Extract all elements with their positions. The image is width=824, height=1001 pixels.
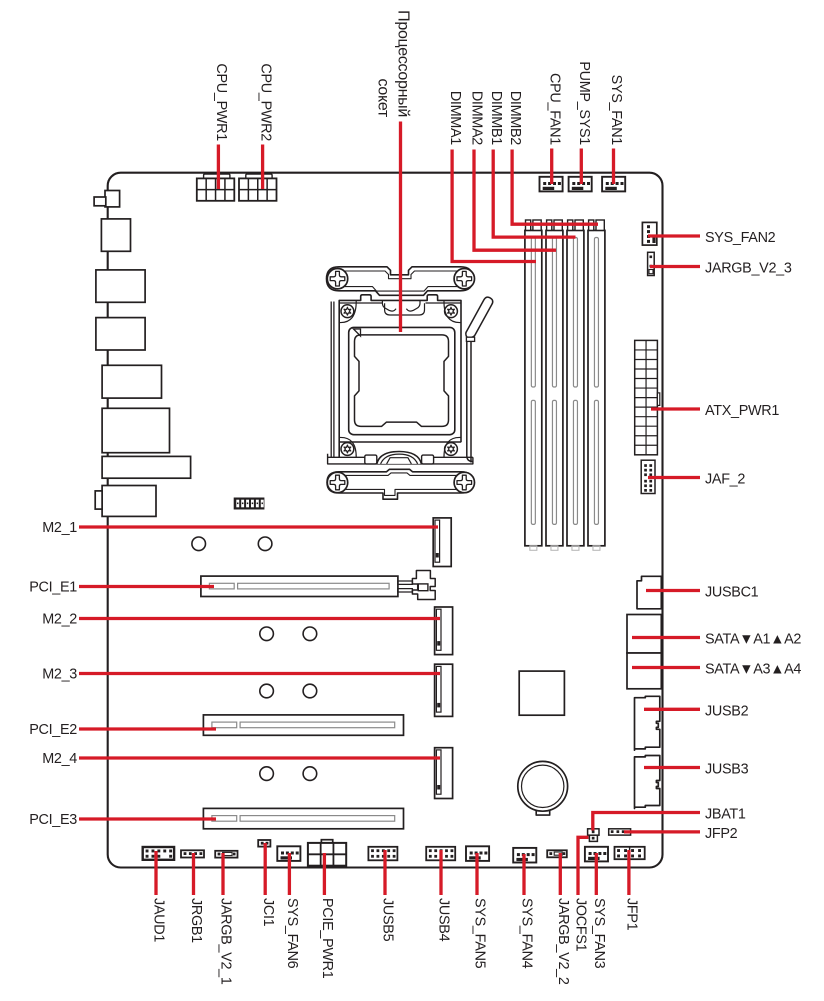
svg-text:JARGB_V2_1: JARGB_V2_1: [218, 898, 234, 985]
svg-text:SYS_FAN6: SYS_FAN6: [284, 898, 300, 969]
svg-text:Процессорный: Процессорный: [395, 10, 412, 117]
svg-text:PCIE_PWR1: PCIE_PWR1: [319, 898, 335, 979]
svg-text:DIMMB1: DIMMB1: [488, 91, 504, 145]
svg-text:M2_4: M2_4: [42, 751, 77, 767]
svg-text:JARGB_V2_2: JARGB_V2_2: [555, 898, 571, 985]
svg-text:PCI_E1: PCI_E1: [29, 580, 77, 596]
svg-text:SYS_FAN5: SYS_FAN5: [472, 898, 488, 969]
svg-text:JFP2: JFP2: [705, 826, 738, 842]
svg-text:CPU_PWR2: CPU_PWR2: [257, 63, 273, 141]
svg-text:DIMMA1: DIMMA1: [447, 91, 463, 145]
svg-text:SYS_FAN3: SYS_FAN3: [591, 898, 607, 969]
svg-text:JUSB4: JUSB4: [436, 898, 452, 942]
svg-text:JAUD1: JAUD1: [151, 898, 167, 942]
svg-text:SYS_FAN1: SYS_FAN1: [608, 75, 624, 146]
svg-text:M2_2: M2_2: [42, 612, 77, 628]
svg-text:PUMP_SYS1: PUMP_SYS1: [576, 61, 592, 145]
svg-text:JBAT1: JBAT1: [705, 807, 746, 823]
svg-text:DIMMB2: DIMMB2: [507, 91, 523, 145]
svg-text:CPU_PWR1: CPU_PWR1: [213, 63, 229, 141]
svg-text:DIMMA2: DIMMA2: [469, 91, 485, 145]
svg-text:CPU_FAN1: CPU_FAN1: [546, 73, 562, 145]
svg-text:SYS_FAN2: SYS_FAN2: [705, 230, 776, 246]
svg-text:SATA▼A1▲A2: SATA▼A1▲A2: [705, 632, 801, 648]
svg-text:PCI_E2: PCI_E2: [29, 722, 77, 738]
svg-text:PCI_E3: PCI_E3: [29, 812, 77, 828]
svg-text:JRGB1: JRGB1: [188, 898, 204, 943]
svg-text:JUSBC1: JUSBC1: [705, 585, 759, 601]
svg-text:JUSB2: JUSB2: [705, 703, 749, 719]
svg-text:M2_1: M2_1: [42, 520, 77, 536]
svg-text:SYS_FAN4: SYS_FAN4: [519, 898, 535, 969]
svg-text:SATA▼A3▲A4: SATA▼A3▲A4: [705, 662, 801, 678]
svg-text:JCI1: JCI1: [260, 898, 276, 927]
svg-text:ATX_PWR1: ATX_PWR1: [705, 403, 779, 419]
svg-text:JFP1: JFP1: [624, 898, 640, 931]
svg-text:JAF_2: JAF_2: [705, 472, 745, 488]
svg-text:JUSB3: JUSB3: [705, 762, 749, 778]
svg-text:M2_3: M2_3: [42, 667, 77, 683]
svg-text:JOCFS1: JOCFS1: [573, 898, 589, 952]
svg-text:сокет: сокет: [375, 79, 392, 118]
svg-text:JUSB5: JUSB5: [380, 898, 396, 942]
svg-text:JARGB_V2_3: JARGB_V2_3: [705, 261, 792, 277]
